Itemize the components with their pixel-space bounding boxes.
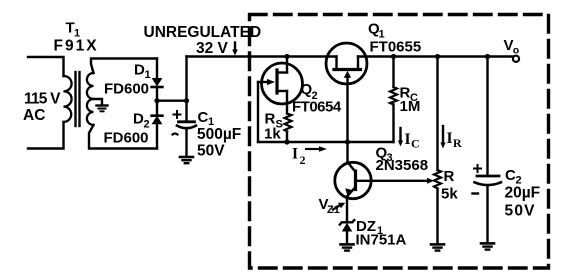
transformer T1 core [76,72,80,126]
transistor Q2 gate arrow [258,79,275,85]
wire top rail [187,55,337,57]
svg-text:C: C [411,137,420,151]
wire center tap [92,99,102,105]
resistor R 5k potentiometer [434,170,441,189]
wire R to ground [436,189,438,245]
label T1 [66,20,81,40]
svg-text:C: C [505,167,516,184]
svg-text:o: o [513,45,519,57]
transistor Q1 gate arrow [344,71,351,78]
svg-text:AC: AC [23,107,45,124]
wire Q2 gate down [257,82,259,142]
label DZ1 [356,218,383,237]
svg-text:50V: 50V [505,203,536,220]
resistor RS 1k [285,114,292,132]
node gate Q1 junction [345,139,350,144]
ground center tap [97,106,108,112]
wire I2 horizontal [258,141,394,143]
wire C2 riser [486,57,488,176]
wire Q3 emitter down [346,197,348,223]
svg-text:2N3568: 2N3568 [376,157,429,174]
ground below R [431,244,444,250]
transistor Q3 emitter arrow [345,188,353,196]
label Vo [504,37,520,57]
svg-text:R: R [453,136,462,150]
transistor Q1 internals [334,57,361,70]
label RC [400,85,419,105]
node RC junction rail [391,54,396,59]
wire RC to I2 wire [392,105,394,143]
ground below DZ1 [341,244,354,250]
wire C1 riser [185,57,187,122]
arrow IC down [398,128,403,147]
svg-text:50V: 50V [197,143,225,160]
label IC [405,131,420,151]
svg-text:R: R [444,168,455,185]
label Q2 [301,81,318,102]
diode D2 [152,101,163,149]
svg-text:IN751A: IN751A [356,232,407,249]
wire top rail right [358,55,513,57]
ground below C2 [481,243,494,249]
zener diode DZ1 [340,220,354,244]
svg-text:I: I [292,145,298,162]
svg-text:FD600: FD600 [104,81,149,98]
C2 plus sign [474,165,481,172]
transistor Q3 2N3568 circle [335,162,371,198]
resistor RC 1M [390,87,397,105]
op node: junction Q2 drain on rail [284,54,289,59]
resistor R riser [436,57,438,171]
diode D1 [152,59,163,101]
svg-text:D: D [134,62,145,79]
svg-text:D: D [133,111,144,128]
transistor Q2 internals [277,57,287,114]
svg-text:FD600: FD600 [104,129,149,146]
wire secondary bottom lead [89,125,157,149]
label D1 [134,62,151,81]
dashed regulator box [250,15,549,269]
C2 minus sign [473,192,479,194]
C1 minus sign [173,134,178,135]
ground below C1 [180,157,193,163]
terminal Vo [513,56,519,62]
svg-text:115 V: 115 V [24,91,61,108]
wire secondary top lead [91,59,157,74]
svg-text:1: 1 [145,69,151,81]
node junction diodes [154,98,159,103]
node junction C1 riser [184,98,189,103]
transistor Q2 FT0654 circle [262,63,303,104]
svg-text:32 V: 32 V [196,40,229,57]
svg-text:FT0655: FT0655 [370,39,422,56]
svg-text:500µF: 500µF [197,126,241,143]
label I2 with arrow [292,145,327,167]
label Q3 [376,145,393,165]
wire RS to I2 node [286,132,288,143]
svg-text:2: 2 [300,153,306,167]
capacitor C2 [475,176,502,243]
label Q1 [368,20,385,40]
svg-text:I: I [405,131,411,148]
wire junction to C1 [157,99,187,101]
wire Q3 base to R wiper [356,178,435,184]
arrow IR down [440,126,445,149]
label RS [265,111,283,131]
arrow VZ1 pointing to emitter wire [333,203,345,210]
svg-text:1k: 1k [264,126,281,143]
label D2 [133,111,150,131]
transformer T1 primary winding [64,76,72,122]
transistor Q1 FT0655 circle [326,43,367,84]
node C2 junction rail [485,54,490,59]
capacitor C1 [177,122,196,157]
label VZ1 [319,196,340,216]
node R junction rail [435,54,440,59]
arrow 32V pointing down [232,43,238,56]
resistor RC riser [392,57,394,88]
svg-text:Z1: Z1 [327,204,340,216]
svg-text:C: C [198,109,209,126]
svg-text:FT0654: FT0654 [292,99,342,116]
svg-text:5k: 5k [441,186,458,203]
wire Q1 gate down to Q3 [346,76,348,162]
node RS junction [284,139,289,144]
label C2 [505,167,522,187]
svg-text:20µF: 20µF [505,185,541,202]
C1 plus sign [174,111,181,118]
label IR [447,130,463,150]
wire primary top lead [28,57,64,76]
label C1 [198,109,215,128]
svg-text:F91X: F91X [54,38,99,55]
wire primary bottom lead [28,122,64,149]
svg-text:1M: 1M [400,98,421,115]
svg-text:UNREGULATED: UNREGULATED [144,24,262,41]
transformer T1 secondary winding [87,73,94,125]
svg-text:I: I [447,130,453,147]
transistor Q3 internals [347,162,356,197]
